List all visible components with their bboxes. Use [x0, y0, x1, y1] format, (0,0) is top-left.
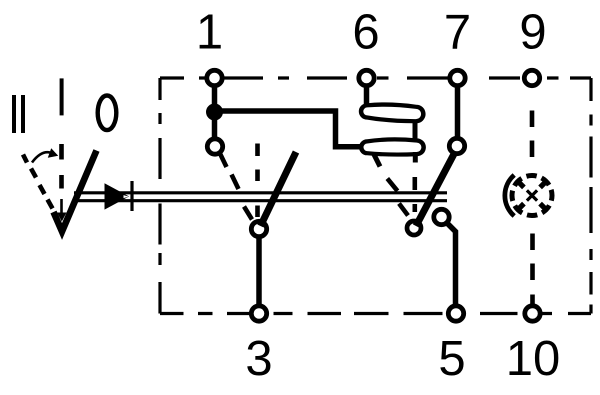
switch housing border: right side (dash-dot)	[589, 78, 592, 314]
position label II	[12, 95, 25, 133]
right switch blade	[416, 153, 455, 226]
svg-text:6: 6	[352, 6, 379, 60]
terminal 5 circle	[448, 306, 463, 321]
wire: terminal 7 stem to right pivot	[455, 87, 461, 138]
wire: terminal 1 stem down to junction	[212, 87, 218, 112]
coil upper loop	[359, 102, 426, 123]
wire: junction to coil (stepped)	[218, 111, 361, 147]
fixed contact circle under terminal 1	[207, 139, 222, 154]
svg-text:10: 10	[506, 332, 561, 386]
switch housing border: top side (dash-dot)	[160, 76, 591, 79]
indicator lamp: X spokes	[518, 181, 546, 209]
middle switch blade	[261, 152, 297, 226]
switch housing border: left side (dash-dot)	[158, 78, 161, 314]
actuator tick after arrowhead	[130, 181, 133, 211]
indicator lamp: reflector arc	[505, 175, 514, 216]
svg-text:7: 7	[444, 6, 471, 60]
svg-text:3: 3	[245, 332, 272, 386]
coil link between loops	[413, 121, 418, 140]
svg-text:1: 1	[196, 6, 223, 60]
dashed diagonal from coil left tail to blade end	[387, 179, 408, 216]
dashed diagonal from contact under 1 to middle pivot	[220, 153, 253, 220]
dashed vertical rest-position line above middle pivot	[255, 144, 260, 218]
blade end circle	[407, 221, 421, 235]
actuator lever (checkmark)	[54, 151, 97, 232]
junction dot node	[206, 104, 223, 121]
dashed vertical from coil right tail to blade end	[412, 177, 417, 212]
coil lower-left tail	[374, 155, 380, 167]
switch housing border: bottom side (dash-dot)	[160, 312, 591, 315]
contact circle to terminal 5	[434, 209, 449, 224]
wire: junction down to fixed contact circle	[212, 112, 218, 138]
indicator lamp: center cross	[527, 190, 537, 200]
indicator lamp: dashed circle	[512, 176, 552, 216]
coil lower loop	[359, 137, 426, 156]
svg-text:9: 9	[519, 6, 546, 60]
middle pivot circle (contact 3)	[251, 221, 266, 236]
terminal 3 circle	[251, 306, 266, 321]
position label 0	[98, 96, 117, 131]
actuator mechanical bar (double line)	[74, 191, 447, 194]
wire: terminal 6 stem to coil	[364, 87, 370, 107]
svg-text:5: 5	[438, 332, 465, 386]
coil lower-right tail	[413, 152, 418, 163]
curved arrow between positions	[32, 152, 50, 162]
dashed wire lamp to terminal 10	[530, 234, 535, 306]
position label I	[60, 78, 64, 115]
terminal 9 circle	[524, 70, 539, 85]
dashed wire terminal 9 to lamp	[530, 111, 535, 158]
terminal 10 circle	[525, 306, 540, 321]
terminal 6 circle	[359, 70, 374, 85]
terminal 7 circle	[450, 70, 465, 85]
terminal 1 circle	[207, 70, 222, 85]
right pivot circle	[449, 138, 464, 153]
actuator arrowhead on bar	[105, 183, 130, 209]
dashed lever position I line with arrow	[59, 144, 64, 189]
wire: middle pivot to terminal 3	[256, 239, 262, 307]
dashed lever position II line	[23, 155, 53, 209]
wire: bent contact down to terminal 5	[446, 222, 456, 307]
